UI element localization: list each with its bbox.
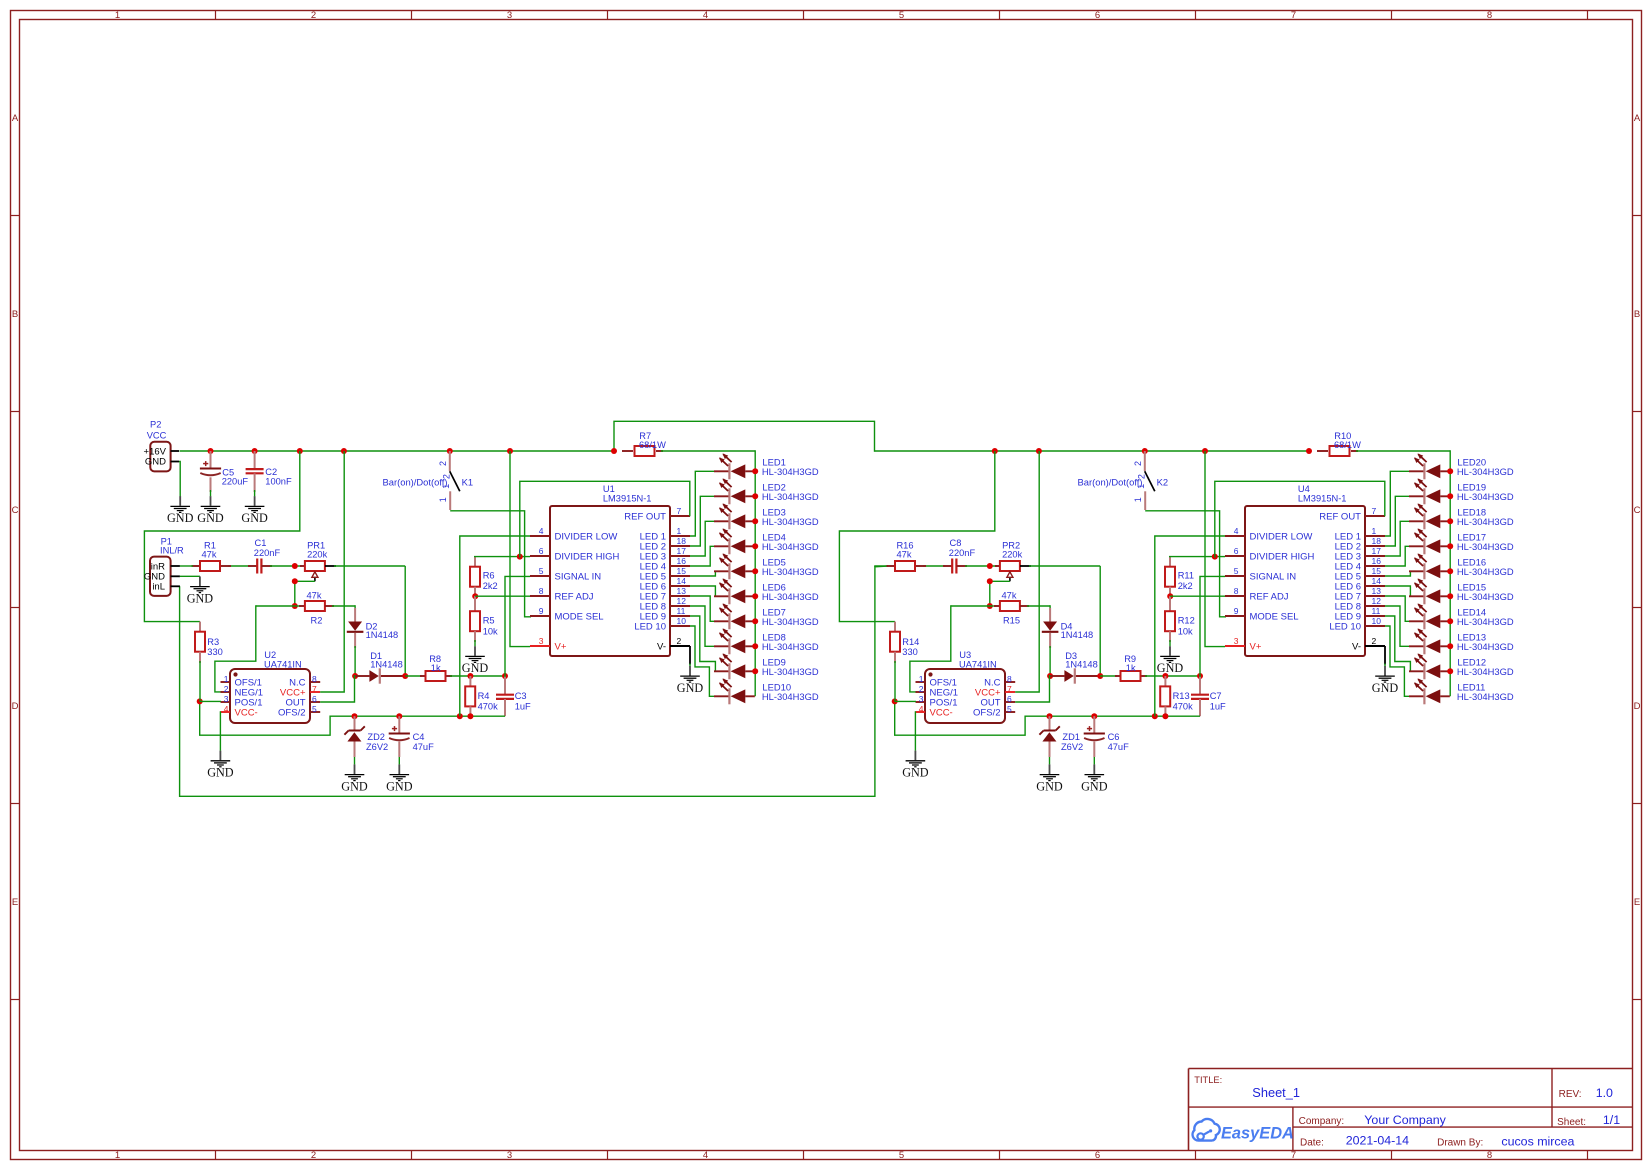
svg-text:13: 13 <box>1372 586 1382 596</box>
svg-text:C6: C6 <box>1108 732 1120 742</box>
svg-text:EasyEDA: EasyEDA <box>1221 1124 1294 1142</box>
svg-text:GND: GND <box>1036 779 1063 793</box>
svg-text:C7: C7 <box>1210 691 1222 701</box>
svg-text:2: 2 <box>1137 474 1147 479</box>
svg-text:3: 3 <box>507 10 512 21</box>
svg-text:C: C <box>12 505 19 516</box>
svg-text:7: 7 <box>312 684 317 694</box>
svg-text:R3: R3 <box>207 637 219 647</box>
svg-text:1: 1 <box>677 526 682 536</box>
svg-text:D: D <box>1634 701 1641 712</box>
svg-text:12: 12 <box>1372 596 1382 606</box>
svg-text:VCC: VCC <box>147 431 167 441</box>
svg-text:B: B <box>12 309 18 320</box>
svg-text:6: 6 <box>1234 546 1239 556</box>
svg-text:2k2: 2k2 <box>483 581 498 591</box>
svg-text:220nF: 220nF <box>949 548 976 558</box>
svg-text:GND: GND <box>241 511 268 525</box>
svg-text:5: 5 <box>899 10 904 21</box>
svg-text:330: 330 <box>207 647 223 657</box>
svg-text:1: 1 <box>438 497 448 502</box>
svg-text:HL-304H3GD: HL-304H3GD <box>1457 466 1514 477</box>
svg-text:E: E <box>12 897 18 908</box>
svg-text:4: 4 <box>539 526 544 536</box>
svg-text:R2: R2 <box>311 615 323 625</box>
svg-text:1k: 1k <box>1126 663 1136 673</box>
svg-text:V-: V- <box>657 641 666 652</box>
svg-text:2021-04-14: 2021-04-14 <box>1346 1133 1409 1147</box>
svg-text:DIVIDER HIGH: DIVIDER HIGH <box>1250 551 1315 562</box>
svg-text:Z6V2: Z6V2 <box>1061 742 1083 752</box>
svg-text:V-: V- <box>1352 641 1361 652</box>
svg-text:D: D <box>12 701 19 712</box>
svg-text:Sheet:: Sheet: <box>1557 1117 1586 1128</box>
svg-text:C: C <box>1634 505 1641 516</box>
svg-text:8: 8 <box>1234 586 1239 596</box>
svg-text:R14: R14 <box>902 637 919 647</box>
svg-text:1: 1 <box>1136 484 1146 489</box>
svg-text:GND: GND <box>1081 779 1108 793</box>
svg-text:3: 3 <box>919 694 924 704</box>
svg-text:UA741IN: UA741IN <box>264 659 302 669</box>
svg-text:GND: GND <box>187 591 214 605</box>
svg-text:HL-304H3GD: HL-304H3GD <box>1457 591 1514 602</box>
svg-text:HL-304H3GD: HL-304H3GD <box>1457 666 1514 677</box>
svg-text:7: 7 <box>1291 1150 1296 1161</box>
svg-text:C1: C1 <box>255 538 267 548</box>
svg-text:2: 2 <box>1372 636 1377 646</box>
svg-text:6: 6 <box>539 546 544 556</box>
svg-text:7: 7 <box>1007 684 1012 694</box>
svg-text:1N4148: 1N4148 <box>1061 630 1094 640</box>
svg-text:14: 14 <box>677 576 687 586</box>
svg-text:4: 4 <box>703 10 708 21</box>
svg-text:7: 7 <box>1372 506 1377 516</box>
svg-text:REV:: REV: <box>1559 1089 1582 1100</box>
svg-text:47uF: 47uF <box>413 742 435 752</box>
svg-text:HL-304H3GD: HL-304H3GD <box>1457 566 1514 577</box>
svg-text:2: 2 <box>442 474 452 479</box>
svg-text:HL-304H3GD: HL-304H3GD <box>1457 616 1514 627</box>
svg-text:4: 4 <box>703 1150 708 1161</box>
svg-text:4: 4 <box>224 704 229 714</box>
svg-text:8: 8 <box>312 674 317 684</box>
svg-text:C3: C3 <box>515 691 527 701</box>
svg-text:GND: GND <box>1157 661 1184 675</box>
svg-text:5: 5 <box>1007 704 1012 714</box>
svg-text:R13: R13 <box>1173 691 1190 701</box>
svg-text:7: 7 <box>677 506 682 516</box>
svg-text:GND: GND <box>167 511 194 525</box>
svg-text:HL-304H3GD: HL-304H3GD <box>1457 516 1514 527</box>
svg-text:220uF: 220uF <box>222 476 249 486</box>
svg-text:HL-304H3GD: HL-304H3GD <box>762 691 819 702</box>
svg-text:VCC-: VCC- <box>235 707 258 718</box>
svg-text:OFS/2: OFS/2 <box>973 707 1000 718</box>
svg-text:cucos mircea: cucos mircea <box>1501 1135 1574 1149</box>
svg-text:8: 8 <box>1487 10 1492 21</box>
svg-text:470k: 470k <box>1173 701 1194 711</box>
svg-text:Date:: Date: <box>1300 1138 1324 1149</box>
svg-text:SIGNAL IN: SIGNAL IN <box>1250 571 1297 582</box>
svg-text:3: 3 <box>224 694 229 704</box>
svg-text:220k: 220k <box>307 550 328 560</box>
svg-text:HL-304H3GD: HL-304H3GD <box>1457 691 1514 702</box>
svg-text:1k: 1k <box>431 663 441 673</box>
svg-text:2: 2 <box>677 636 682 646</box>
svg-text:18: 18 <box>677 536 687 546</box>
svg-text:HL-304H3GD: HL-304H3GD <box>762 516 819 527</box>
svg-text:P2: P2 <box>150 419 161 429</box>
svg-text:DIVIDER LOW: DIVIDER LOW <box>555 531 618 542</box>
svg-text:470k: 470k <box>478 701 499 711</box>
svg-text:4: 4 <box>919 704 924 714</box>
svg-text:1: 1 <box>224 674 229 684</box>
svg-text:6: 6 <box>312 694 317 704</box>
svg-text:Z6V2: Z6V2 <box>366 742 388 752</box>
svg-text:1: 1 <box>441 484 451 489</box>
svg-text:ZD1: ZD1 <box>1062 732 1080 742</box>
svg-text:10k: 10k <box>1178 626 1193 636</box>
svg-text:15: 15 <box>1372 566 1382 576</box>
svg-text:16: 16 <box>1372 556 1382 566</box>
svg-text:GND: GND <box>462 661 489 675</box>
svg-text:GND: GND <box>341 779 368 793</box>
svg-text:7: 7 <box>1291 10 1296 21</box>
svg-text:MODE SEL: MODE SEL <box>1250 611 1299 622</box>
svg-text:R6: R6 <box>483 570 495 580</box>
svg-text:R4: R4 <box>478 691 490 701</box>
svg-text:ZD2: ZD2 <box>367 732 385 742</box>
svg-text:5: 5 <box>312 704 317 714</box>
svg-text:220nF: 220nF <box>254 548 281 558</box>
svg-text:6: 6 <box>1095 1150 1100 1161</box>
svg-text:14: 14 <box>1372 576 1382 586</box>
svg-text:V+: V+ <box>1250 641 1262 652</box>
svg-text:2: 2 <box>311 10 316 21</box>
svg-text:E: E <box>1634 897 1640 908</box>
svg-text:LED 10: LED 10 <box>1329 621 1361 632</box>
svg-text:Sheet_1: Sheet_1 <box>1252 1085 1300 1100</box>
svg-text:2k2: 2k2 <box>1178 581 1193 591</box>
svg-text:R15: R15 <box>1003 615 1020 625</box>
svg-text:K1: K1 <box>462 477 473 488</box>
svg-text:INL/R: INL/R <box>160 545 184 555</box>
svg-text:8: 8 <box>1007 674 1012 684</box>
svg-text:HL-304H3GD: HL-304H3GD <box>762 666 819 677</box>
svg-text:5: 5 <box>1234 566 1239 576</box>
svg-text:DIVIDER HIGH: DIVIDER HIGH <box>555 551 620 562</box>
svg-text:HL-304H3GD: HL-304H3GD <box>762 466 819 477</box>
svg-text:DIVIDER LOW: DIVIDER LOW <box>1250 531 1313 542</box>
svg-text:6: 6 <box>1007 694 1012 704</box>
svg-text:HL-304H3GD: HL-304H3GD <box>762 616 819 627</box>
svg-text:2: 2 <box>224 684 229 694</box>
svg-text:R12: R12 <box>1178 616 1195 626</box>
svg-text:GND: GND <box>207 766 234 780</box>
svg-text:17: 17 <box>1372 546 1382 556</box>
svg-text:LM3915N-1: LM3915N-1 <box>1298 493 1347 503</box>
svg-text:10k: 10k <box>483 626 498 636</box>
svg-text:inL: inL <box>152 582 165 593</box>
svg-text:GND: GND <box>677 681 704 695</box>
svg-text:9: 9 <box>539 606 544 616</box>
svg-text:A: A <box>12 113 19 124</box>
svg-text:B: B <box>1634 309 1640 320</box>
svg-text:15: 15 <box>677 566 687 576</box>
svg-text:100nF: 100nF <box>265 476 292 486</box>
svg-text:1: 1 <box>1133 497 1143 502</box>
svg-text:1: 1 <box>115 10 120 21</box>
svg-text:68/1W: 68/1W <box>1334 440 1361 450</box>
svg-text:REF ADJ: REF ADJ <box>555 591 594 602</box>
svg-text:1.0: 1.0 <box>1596 1086 1613 1100</box>
svg-text:1/1: 1/1 <box>1603 1113 1620 1127</box>
svg-text:MODE SEL: MODE SEL <box>555 611 604 622</box>
svg-text:Drawn By:: Drawn By: <box>1437 1138 1483 1149</box>
svg-text:220k: 220k <box>1002 550 1023 560</box>
svg-text:Your Company: Your Company <box>1364 1113 1446 1127</box>
svg-text:12: 12 <box>677 596 687 606</box>
svg-text:GND: GND <box>1372 681 1399 695</box>
svg-text:47uF: 47uF <box>1108 742 1130 752</box>
svg-text:HL-304H3GD: HL-304H3GD <box>762 541 819 552</box>
svg-text:1: 1 <box>919 674 924 684</box>
svg-text:13: 13 <box>677 586 687 596</box>
svg-text:HL-304H3GD: HL-304H3GD <box>762 566 819 577</box>
svg-text:Bar(on)/Dot(off): Bar(on)/Dot(off) <box>383 476 448 487</box>
svg-text:REF OUT: REF OUT <box>624 511 666 522</box>
svg-text:GND: GND <box>386 779 413 793</box>
svg-text:47k: 47k <box>1002 590 1017 600</box>
svg-text:3: 3 <box>539 636 544 646</box>
svg-text:1N4148: 1N4148 <box>370 660 403 670</box>
svg-text:47k: 47k <box>307 590 322 600</box>
svg-text:1: 1 <box>115 1150 120 1161</box>
svg-text:8: 8 <box>539 586 544 596</box>
svg-text:GND: GND <box>902 766 929 780</box>
svg-text:6: 6 <box>1095 10 1100 21</box>
svg-text:SIGNAL IN: SIGNAL IN <box>555 571 602 582</box>
svg-text:8: 8 <box>1487 1150 1492 1161</box>
svg-text:Bar(on)/Dot(off): Bar(on)/Dot(off) <box>1078 476 1143 487</box>
svg-text:A: A <box>1634 113 1641 124</box>
svg-text:10: 10 <box>1372 616 1382 626</box>
svg-text:LED 10: LED 10 <box>634 621 666 632</box>
svg-text:R11: R11 <box>1178 570 1194 580</box>
svg-text:3: 3 <box>507 1150 512 1161</box>
svg-text:2: 2 <box>1133 461 1143 466</box>
svg-text:V+: V+ <box>555 641 567 652</box>
svg-text:3: 3 <box>1234 636 1239 646</box>
svg-text:4: 4 <box>1234 526 1239 536</box>
svg-text:1N4148: 1N4148 <box>1065 660 1098 670</box>
svg-text:5: 5 <box>899 1150 904 1161</box>
svg-text:C4: C4 <box>413 732 425 742</box>
svg-text:HL-304H3GD: HL-304H3GD <box>762 491 819 502</box>
svg-text:47k: 47k <box>897 550 912 560</box>
svg-text:HL-304H3GD: HL-304H3GD <box>1457 541 1514 552</box>
svg-text:VCC-: VCC- <box>930 707 953 718</box>
svg-text:LM3915N-1: LM3915N-1 <box>603 493 652 503</box>
svg-text:C8: C8 <box>950 538 962 548</box>
svg-text:1N4148: 1N4148 <box>366 630 399 640</box>
svg-text:REF ADJ: REF ADJ <box>1250 591 1289 602</box>
svg-text:2: 2 <box>919 684 924 694</box>
svg-text:330: 330 <box>902 647 918 657</box>
svg-text:16: 16 <box>677 556 687 566</box>
svg-text:2: 2 <box>311 1150 316 1161</box>
svg-text:1: 1 <box>1372 526 1377 536</box>
svg-text:47k: 47k <box>202 550 217 560</box>
svg-text:HL-304H3GD: HL-304H3GD <box>762 591 819 602</box>
svg-text:17: 17 <box>677 546 687 556</box>
svg-text:Company:: Company: <box>1299 1116 1345 1127</box>
svg-text:R5: R5 <box>483 616 495 626</box>
svg-text:2: 2 <box>438 461 448 466</box>
svg-text:11: 11 <box>1372 606 1381 616</box>
svg-text:9: 9 <box>1234 606 1239 616</box>
svg-text:10: 10 <box>677 616 687 626</box>
svg-text:HL-304H3GD: HL-304H3GD <box>1457 641 1514 652</box>
svg-text:K2: K2 <box>1157 477 1168 488</box>
svg-text:1uF: 1uF <box>515 701 531 711</box>
svg-text:18: 18 <box>1372 536 1382 546</box>
svg-text:REF OUT: REF OUT <box>1319 511 1361 522</box>
svg-text:11: 11 <box>677 606 686 616</box>
svg-text:GND: GND <box>145 457 166 468</box>
svg-text:GND: GND <box>197 511 224 525</box>
svg-text:TITLE:: TITLE: <box>1194 1075 1222 1085</box>
svg-text:HL-304H3GD: HL-304H3GD <box>762 641 819 652</box>
svg-text:5: 5 <box>539 566 544 576</box>
svg-text:68/1W: 68/1W <box>639 440 666 450</box>
svg-text:UA741IN: UA741IN <box>959 659 997 669</box>
svg-text:HL-304H3GD: HL-304H3GD <box>1457 491 1514 502</box>
svg-text:1uF: 1uF <box>1210 701 1226 711</box>
svg-text:OFS/2: OFS/2 <box>278 707 305 718</box>
